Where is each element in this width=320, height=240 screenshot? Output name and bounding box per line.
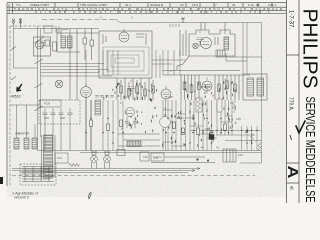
svg-text:SERVICE MEDDELELSE: SERVICE MEDDELELSE [303,97,318,203]
svg-text:770 A.: 770 A. [288,97,294,111]
svg-text:1-7-37.: 1-7-37. [288,10,294,29]
svg-text:PHILIPS: PHILIPS [299,9,320,89]
svg-text:al.: al. [290,186,295,191]
